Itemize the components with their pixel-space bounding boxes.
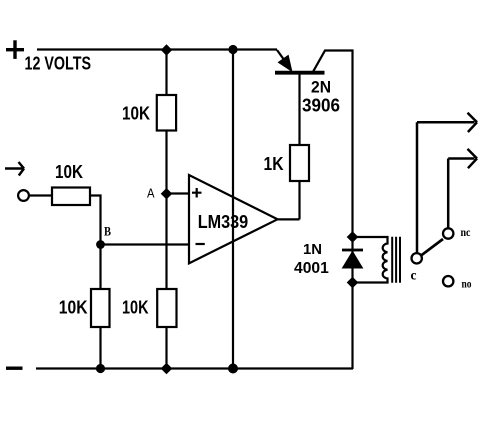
wire +12V top rail <box>37 48 277 50</box>
wire common contact lead with arrow <box>417 113 477 253</box>
wire NC contact lead with arrow <box>448 149 477 228</box>
plus symbol (+12V terminal) <box>6 40 24 59</box>
svg-text:B: B <box>104 223 111 238</box>
wire output up to 1K resistor <box>298 181 300 219</box>
input terminal circle <box>18 190 29 201</box>
transistor Q1 emitter wire with PNP arrow <box>277 50 286 63</box>
transistor Q1 base bar <box>275 71 325 75</box>
relay switch arm (c to nc) <box>421 239 443 255</box>
node junction on top rail (round, x=233) <box>228 45 237 54</box>
svg-text:3906: 3906 <box>302 96 340 116</box>
wire Rin right side to node B column <box>90 196 101 290</box>
svg-text:4001: 4001 <box>294 260 329 277</box>
op-amp + input symbol <box>192 188 202 198</box>
relay K1 core bars <box>392 237 400 283</box>
node junction relay top <box>347 231 359 242</box>
svg-text:c: c <box>411 267 417 282</box>
diode D1 1N4001 cathode bar <box>342 249 363 252</box>
wire lower right resistor to ground rail <box>165 327 167 369</box>
resistor 10K (lower right divider) <box>157 289 176 327</box>
wire node A to op-amp + input <box>167 192 190 194</box>
node junction relay bottom <box>347 277 359 288</box>
relay K1 coil <box>353 237 388 283</box>
svg-text:2N: 2N <box>311 78 331 96</box>
svg-text:A: A <box>147 185 155 200</box>
wire input terminal to Rin <box>29 194 52 196</box>
resistor 10K (input series) <box>52 188 90 206</box>
svg-text:12 VOLTS: 12 VOLTS <box>25 54 92 74</box>
wire LM339 power column (top rail to ground rail) <box>232 50 234 369</box>
wire op-amp output <box>278 218 300 220</box>
transistor Q1 collector wire down to relay <box>313 51 353 370</box>
ground rail (negative bus) <box>36 367 353 369</box>
wire from top rail down to R1 <box>165 50 167 95</box>
node junction ground rail (diamond, x=166) <box>161 363 173 375</box>
node B (round junction) <box>96 240 105 249</box>
minus symbol (negative terminal) <box>6 367 23 370</box>
resistor 1K (base resistor) <box>290 145 309 181</box>
wire lower left resistor to ground rail <box>99 327 101 369</box>
wire 1K to transistor base <box>298 74 300 145</box>
svg-text:1N: 1N <box>303 242 322 258</box>
op-amp U1 LM339 comparator triangle <box>189 175 278 263</box>
wire node B to op-amp - input (crosses A column) <box>101 243 190 245</box>
wire R1 bottom to node A and down through crossing <box>165 131 167 290</box>
svg-text:no: no <box>462 277 472 291</box>
resistor R 10K (top divider) <box>157 95 176 131</box>
relay common contact C circle <box>412 253 422 263</box>
node junction on top rail (diamond, x=166) <box>161 44 172 55</box>
svg-text:LM339: LM339 <box>198 212 249 232</box>
svg-text:1K: 1K <box>264 154 284 174</box>
relay NC contact circle <box>443 228 453 238</box>
svg-text:10K: 10K <box>55 162 83 182</box>
svg-text:nc: nc <box>461 225 472 239</box>
svg-text:10K: 10K <box>59 298 88 318</box>
relay NO contact circle <box>443 276 453 286</box>
node A (diamond junction) <box>161 188 173 199</box>
node junction ground rail (round, x=100) <box>96 364 105 373</box>
input arrow <box>5 162 24 176</box>
node junction ground rail (round, x=233) <box>228 364 238 374</box>
diode D1 1N4001 anode triangle <box>343 252 363 269</box>
svg-text:10K: 10K <box>122 104 150 124</box>
resistor 10K (lower left divider) <box>91 289 110 327</box>
svg-text:10K: 10K <box>122 298 149 318</box>
op-amp - input symbol <box>196 243 205 245</box>
